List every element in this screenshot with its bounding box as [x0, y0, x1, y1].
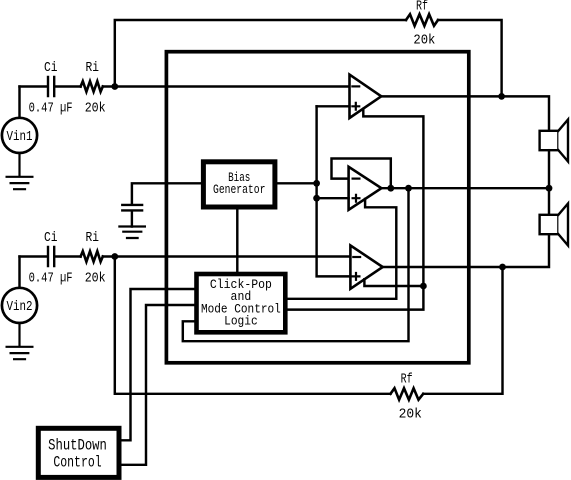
svg-text:ShutDown: ShutDown — [48, 437, 107, 455]
wire U2 noninverting input — [317, 197, 349, 199]
svg-text:Rf: Rf — [416, 0, 428, 15]
source Vin1 — [18, 87, 20, 118]
Click-Pop Mode Control Logic box — [197, 274, 286, 332]
Bias Generator box — [203, 162, 275, 207]
wire bias generator output — [275, 182, 317, 184]
resistor Rf top — [406, 14, 438, 26]
svg-text:Generator: Generator — [213, 182, 265, 197]
wire U3 mute tap to node A — [364, 279, 423, 286]
node bias/U2 — [313, 195, 320, 202]
node Vo2 / Rf junction — [499, 264, 506, 271]
wire U1 mute tap to node A — [363, 109, 423, 286]
wire Vin2 input line — [20, 255, 351, 257]
svg-text:0.47 µF: 0.47 µF — [29, 101, 73, 116]
wire Vin1 input line — [20, 85, 350, 87]
ground Vin1 — [7, 153, 33, 189]
op-amp U1 (top) — [350, 75, 382, 118]
capacitor Ci (bottom) — [48, 247, 54, 266]
wire shutdown control line 2 — [119, 305, 197, 465]
node bias/U1 — [313, 180, 320, 187]
wire speaker1 to U2 output — [548, 150, 550, 188]
svg-text:Control: Control — [53, 454, 101, 472]
svg-text:Ri: Ri — [85, 231, 99, 246]
node U2 output/control — [405, 185, 412, 192]
wire mode control output 2 to node A — [285, 286, 423, 310]
svg-text:Rf: Rf — [401, 373, 413, 388]
svg-text:20k: 20k — [85, 271, 106, 286]
svg-text:20k: 20k — [399, 407, 422, 422]
capacitor Ci (top) — [48, 77, 54, 96]
svg-text:20k: 20k — [85, 101, 106, 116]
svg-text:0.47 µF: 0.47 µF — [29, 271, 73, 286]
svg-text:Vin1: Vin1 — [7, 130, 33, 145]
wire bias generator to bypass cap — [132, 183, 204, 204]
wire bias rail vertical — [317, 106, 351, 276]
ground Vin2 — [7, 323, 33, 359]
wire bias generator to mode control — [236, 207, 238, 274]
svg-text:Ci: Ci — [44, 231, 58, 246]
svg-text:Vin2: Vin2 — [7, 300, 33, 315]
source Vin2 — [18, 257, 20, 288]
resistor Rf bottom — [391, 388, 424, 400]
node speaker junction — [546, 185, 553, 192]
wire shutdown control line 1 — [119, 289, 197, 440]
ground bypass — [119, 227, 144, 239]
wire bottom feedback net (Vin2 junction down, across bottom, up to Vo2) — [115, 257, 503, 394]
wire U2 output wrap-around to mode control — [183, 188, 409, 341]
svg-text:Ci: Ci — [44, 61, 58, 76]
wire U1 noninverting input from bias rail — [317, 105, 350, 107]
capacitor bypass — [122, 205, 142, 227]
resistor Ri (bottom) — [81, 251, 103, 262]
wire U1 output to speaker1 — [381, 96, 549, 130]
svg-text:Logic: Logic — [224, 314, 258, 329]
node Vo1 / Rf junction — [498, 93, 505, 100]
ShutDown Control box — [38, 428, 119, 477]
wire U2 output to speaker2 — [548, 188, 550, 215]
wire U2 mute tap to mode control — [285, 199, 396, 299]
wire U2 feedback loop — [332, 159, 391, 189]
IC outer box — [166, 52, 468, 363]
node A mute taps junction — [420, 283, 427, 290]
svg-text:20k: 20k — [413, 34, 435, 49]
speaker 2 — [540, 215, 559, 234]
node junction Vin2/Ri/Rf — [111, 253, 118, 260]
wire top feedback net (Vin1 junction up, across top, down to Vo1) — [115, 20, 502, 96]
wire U2 output line to speakers — [381, 187, 549, 189]
wire U3 output to speaker2 — [383, 234, 549, 267]
resistor Ri (top) — [81, 81, 103, 92]
node U2 feedback/output — [387, 185, 394, 192]
op-amp U3 (bottom) — [350, 245, 382, 288]
node junction Vin1/Ri/Rf — [111, 83, 118, 90]
speaker 1 — [540, 131, 559, 150]
svg-text:Ri: Ri — [85, 61, 99, 76]
